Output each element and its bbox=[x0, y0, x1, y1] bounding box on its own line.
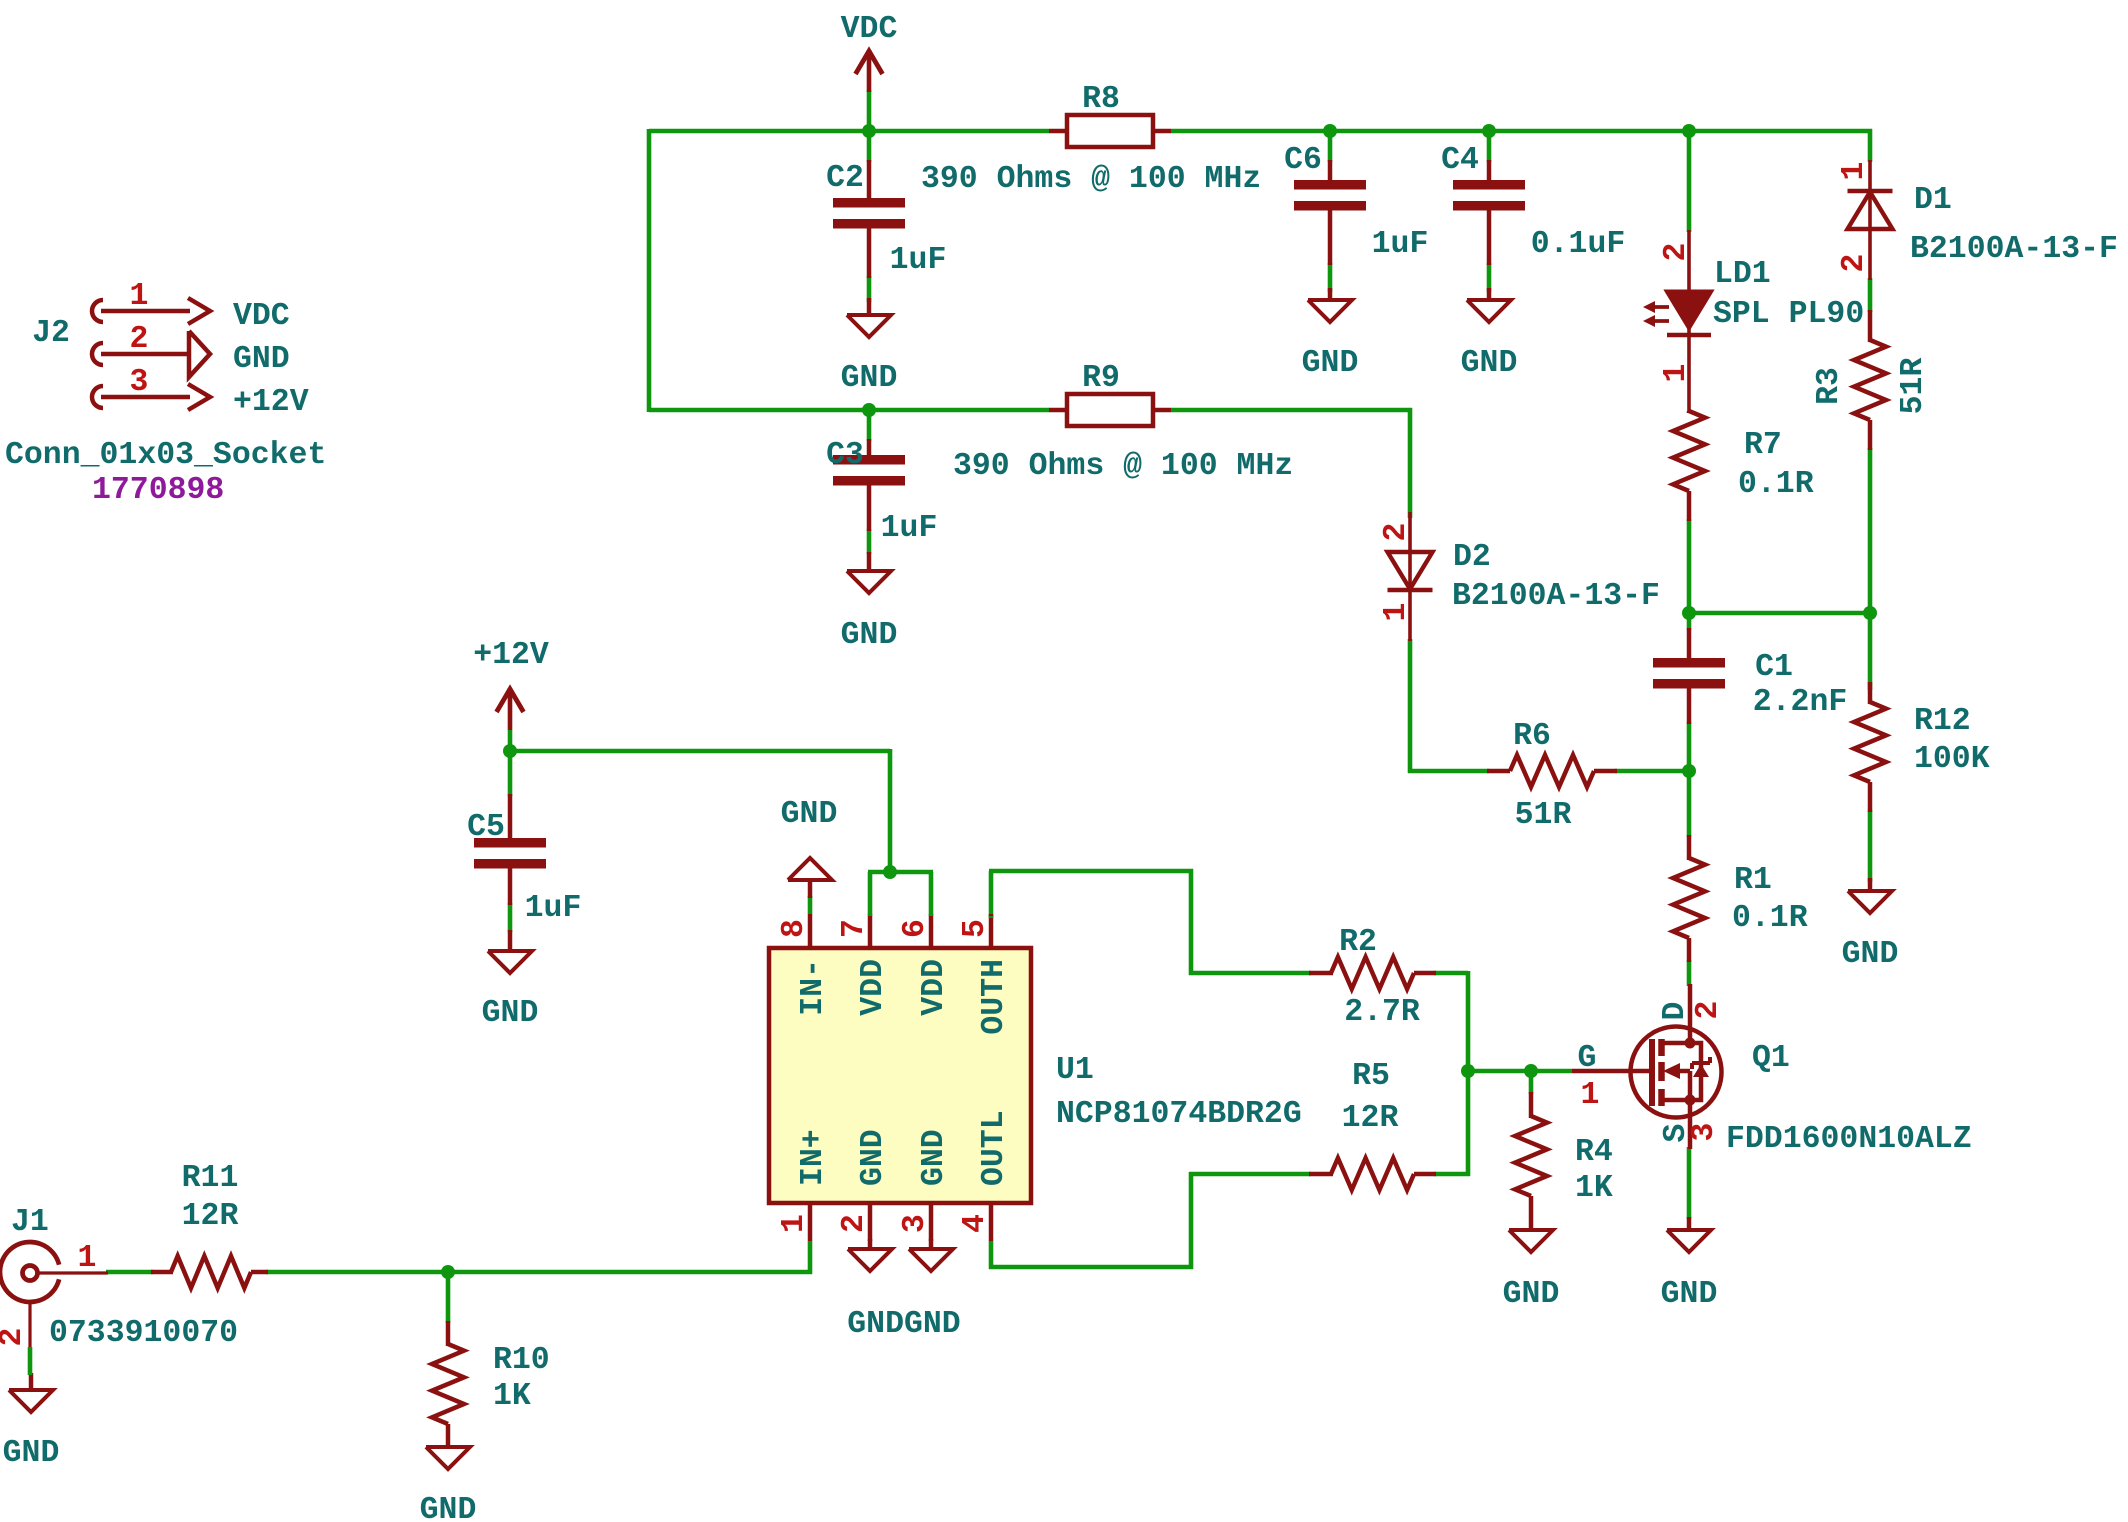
label D2 value bbox=[1452, 579, 1660, 614]
svg-text:VDC: VDC bbox=[233, 299, 290, 334]
connector J1 bbox=[0, 1242, 108, 1349]
wire D2 to corner bbox=[1408, 639, 1413, 773]
svg-text:R3: R3 bbox=[1812, 367, 1847, 405]
svg-text:GNDGND: GNDGND bbox=[847, 1307, 960, 1342]
junction C6 bbox=[1323, 124, 1337, 138]
svg-text:1770898: 1770898 bbox=[92, 473, 224, 508]
wire C3 top bbox=[867, 408, 872, 441]
ground under C2 bbox=[841, 298, 898, 396]
svg-text:51R: 51R bbox=[1515, 798, 1572, 833]
wire node to R12 bbox=[1868, 611, 1873, 690]
label GNDGND bbox=[847, 1307, 960, 1342]
svg-text:GND: GND bbox=[420, 1493, 477, 1522]
ground Q1 source bbox=[1661, 1217, 1718, 1312]
svg-text:3: 3 bbox=[130, 365, 149, 400]
label Q1 pin1 bbox=[1581, 1078, 1600, 1113]
label R7 bbox=[1744, 428, 1782, 463]
label J2 pin1 number bbox=[130, 279, 149, 314]
svg-text:D2: D2 bbox=[1453, 540, 1491, 575]
ground flag U1 pin8 bbox=[781, 797, 838, 898]
label U1 pin 8 number bbox=[777, 919, 812, 938]
ground under C3 bbox=[841, 552, 898, 653]
ground under C5 bbox=[482, 930, 539, 1031]
wire VDC rail to LD1 bbox=[1687, 129, 1692, 232]
svg-text:1uF: 1uF bbox=[525, 891, 582, 926]
svg-text:1: 1 bbox=[1581, 1078, 1600, 1113]
wire R9 rail left bbox=[649, 408, 1049, 413]
svg-text:IN+: IN+ bbox=[796, 1129, 831, 1186]
wire C2 top bbox=[867, 129, 872, 162]
svg-text:5: 5 bbox=[958, 919, 993, 938]
svg-text:GND: GND bbox=[1302, 346, 1359, 381]
svg-text:D1: D1 bbox=[1914, 183, 1952, 218]
label J1 pin1 number bbox=[78, 1241, 97, 1276]
svg-text:3: 3 bbox=[1687, 1123, 1722, 1142]
label R10 value bbox=[493, 1379, 531, 1414]
svg-text:GND: GND bbox=[841, 618, 898, 653]
svg-text:GND: GND bbox=[781, 797, 838, 832]
wire R1 to Q1 drain bbox=[1687, 960, 1692, 986]
ground under R12 bbox=[1842, 878, 1899, 972]
capacitor C5 bbox=[467, 794, 581, 926]
label U1 pin 6 number bbox=[898, 919, 933, 938]
resistor R2 bbox=[1309, 957, 1436, 989]
wire U1 pin8 stub bbox=[808, 896, 813, 914]
label R3 bbox=[1812, 367, 1847, 405]
wire +12V rail horizontal bbox=[508, 749, 890, 754]
label R12 value bbox=[1914, 742, 1990, 777]
wire VDC flag to rail bbox=[867, 90, 872, 133]
label U1 pin name GND bbox=[856, 1129, 891, 1186]
svg-text:1uF: 1uF bbox=[881, 511, 938, 546]
svg-text:+12V: +12V bbox=[233, 385, 309, 420]
svg-text:J1: J1 bbox=[11, 1205, 49, 1240]
svg-text:D: D bbox=[1658, 1002, 1693, 1021]
svg-text:U1: U1 bbox=[1056, 1053, 1094, 1088]
svg-text:G: G bbox=[1578, 1041, 1597, 1076]
resistor R5 bbox=[1309, 1158, 1436, 1190]
wire node to R10 bbox=[446, 1270, 451, 1323]
svg-text:C3: C3 bbox=[826, 438, 864, 473]
resistor R10 bbox=[432, 1321, 464, 1449]
label J2 number bbox=[92, 473, 224, 508]
IC U1 bbox=[769, 872, 1031, 1241]
label R2 bbox=[1339, 925, 1377, 960]
svg-text:51R: 51R bbox=[1896, 358, 1931, 415]
svg-text:LD1: LD1 bbox=[1714, 257, 1771, 292]
ground U1 pin2 bbox=[848, 1239, 892, 1271]
wire R12 to gnd bbox=[1868, 810, 1873, 882]
svg-text:Q1: Q1 bbox=[1752, 1041, 1790, 1076]
svg-text:C6: C6 bbox=[1284, 143, 1322, 178]
label U1 pin 1 number bbox=[777, 1214, 812, 1233]
resistor R12 bbox=[1854, 682, 1886, 812]
svg-text:GND: GND bbox=[1661, 1277, 1718, 1312]
junction +12V bbox=[503, 744, 517, 758]
label J2 pin3 number bbox=[130, 365, 149, 400]
label J2 bbox=[32, 316, 70, 351]
wire C1 bottom to node bbox=[1687, 722, 1692, 773]
wire R5 right lead wire bbox=[1434, 1172, 1470, 1177]
resistor R1 bbox=[1673, 835, 1705, 962]
svg-text:390 Ohms @ 100 MHz: 390 Ohms @ 100 MHz bbox=[921, 162, 1261, 197]
svg-text:FDD1600N10ALZ: FDD1600N10ALZ bbox=[1726, 1122, 1972, 1157]
wire R7 to node C1 bbox=[1687, 519, 1692, 615]
wire +12V rail down to U1 bbox=[888, 749, 893, 874]
capacitor C3 bbox=[826, 438, 937, 546]
wire node to R1 bbox=[1687, 769, 1692, 837]
label R4 value bbox=[1575, 1171, 1613, 1206]
svg-text:J2: J2 bbox=[32, 316, 70, 351]
resistor R6 bbox=[1487, 755, 1617, 787]
svg-text:GND: GND bbox=[841, 361, 898, 396]
resistor R4 bbox=[1515, 1092, 1547, 1232]
svg-text:0733910070: 0733910070 bbox=[49, 1316, 238, 1351]
wire R3 to node bbox=[1868, 448, 1873, 615]
wire C6 top bbox=[1328, 129, 1333, 162]
resistor R11 bbox=[151, 1256, 268, 1288]
svg-text:1uF: 1uF bbox=[890, 243, 947, 278]
wire node C1 horizontal bbox=[1687, 611, 1872, 616]
wire C5 to gnd bbox=[508, 903, 513, 932]
label J2 pin2 number bbox=[130, 322, 149, 357]
svg-text:R6: R6 bbox=[1513, 719, 1551, 754]
svg-text:C1: C1 bbox=[1755, 650, 1793, 685]
wire U1 pin5 up bbox=[989, 871, 994, 918]
junction C3 bbox=[862, 403, 876, 417]
svg-text:GND: GND bbox=[3, 1436, 60, 1471]
svg-text:2.7R: 2.7R bbox=[1344, 995, 1420, 1030]
label U1 pin name OUTL bbox=[977, 1110, 1012, 1186]
svg-text:4: 4 bbox=[958, 1214, 993, 1233]
svg-text:R1: R1 bbox=[1734, 863, 1772, 898]
label U1 pin 3 number bbox=[898, 1214, 933, 1233]
ground under C6 bbox=[1302, 288, 1359, 381]
svg-text:R12: R12 bbox=[1914, 704, 1971, 739]
junction R4-gate bbox=[1524, 1064, 1538, 1078]
wire OUTL horizontal bbox=[989, 1265, 1193, 1270]
svg-text:2: 2 bbox=[1837, 254, 1872, 273]
wire R2 to corner bbox=[1434, 971, 1468, 976]
label Q1 S bbox=[1659, 1124, 1694, 1143]
capacitor C1 bbox=[1653, 628, 1847, 724]
label Q1 value bbox=[1726, 1122, 1972, 1157]
ground J1 bbox=[3, 1373, 60, 1471]
svg-text:390 Ohms @ 100 MHz: 390 Ohms @ 100 MHz bbox=[953, 449, 1293, 484]
wire +12V to C5 bbox=[508, 749, 513, 796]
svg-text:1: 1 bbox=[777, 1214, 812, 1233]
svg-text:VDC: VDC bbox=[841, 12, 898, 47]
label J2 GND bbox=[233, 342, 290, 377]
svg-text:2.2nF: 2.2nF bbox=[1753, 685, 1848, 720]
svg-text:NCP81074BDR2G: NCP81074BDR2G bbox=[1056, 1097, 1302, 1132]
wire +12V flag to rail bbox=[508, 730, 513, 753]
svg-text:B2100A-13-F: B2100A-13-F bbox=[1910, 232, 2118, 267]
wire C4 bottom bbox=[1487, 263, 1492, 292]
svg-text:0.1R: 0.1R bbox=[1732, 901, 1808, 936]
svg-text:2: 2 bbox=[1659, 243, 1694, 262]
wire U1 pin4 down bbox=[989, 1241, 994, 1269]
connector J2 bbox=[92, 298, 210, 410]
svg-text:R5: R5 bbox=[1352, 1059, 1390, 1094]
label R6 bbox=[1513, 719, 1551, 754]
label U1 pin 2 number bbox=[837, 1214, 872, 1233]
svg-text:1: 1 bbox=[1379, 603, 1414, 622]
label U1 pin 5 number bbox=[958, 919, 993, 938]
laser diode LD1 bbox=[1643, 230, 1712, 413]
label R1 value bbox=[1732, 901, 1808, 936]
svg-text:2: 2 bbox=[1691, 1001, 1726, 1020]
junction R10 bbox=[441, 1265, 455, 1279]
svg-text:12R: 12R bbox=[182, 1199, 239, 1234]
diode D1 bbox=[1848, 160, 1893, 280]
label U1 pin name VDD bbox=[917, 959, 952, 1016]
svg-text:Conn_01x03_Socket: Conn_01x03_Socket bbox=[5, 438, 326, 473]
label J2 VDC bbox=[233, 299, 290, 334]
capacitor C2 bbox=[826, 160, 946, 278]
ground under C4 bbox=[1461, 288, 1518, 381]
svg-text:C2: C2 bbox=[826, 161, 864, 196]
label R1 bbox=[1734, 863, 1772, 898]
svg-text:1: 1 bbox=[1837, 162, 1872, 181]
label Q1 bbox=[1752, 1041, 1790, 1076]
wire R9 to D2 bbox=[1408, 408, 1413, 518]
label D1 pin1 bbox=[1837, 162, 1872, 181]
wire C1 top lead bbox=[1687, 611, 1692, 630]
wire top rail corner down to D1 bbox=[1868, 129, 1873, 162]
label Q1 pin2 bbox=[1691, 1001, 1726, 1020]
svg-text:IN-: IN- bbox=[796, 959, 831, 1016]
label U1 pin name OUTH bbox=[977, 959, 1012, 1035]
junction C1 left bbox=[1682, 606, 1696, 620]
diode D2 bbox=[1388, 512, 1433, 641]
svg-text:R9: R9 bbox=[1082, 361, 1120, 396]
label R12 bbox=[1914, 704, 1971, 739]
wire R4 top bbox=[1529, 1069, 1534, 1094]
wire left vertical branch bbox=[647, 129, 652, 412]
junction R6-R1 bbox=[1682, 764, 1696, 778]
wire to R2 bbox=[1189, 971, 1311, 976]
label U1 value bbox=[1056, 1097, 1302, 1132]
svg-text:VDD: VDD bbox=[917, 959, 952, 1016]
wire OUTH down bbox=[1189, 869, 1194, 975]
label D1 value bbox=[1910, 232, 2118, 267]
svg-text:0.1R: 0.1R bbox=[1738, 467, 1814, 502]
label R10 bbox=[493, 1343, 550, 1378]
wire OUTH horizontal bbox=[989, 869, 1193, 874]
svg-text:C4: C4 bbox=[1441, 143, 1479, 178]
wire U1 pin7 pin6 tie bbox=[868, 870, 933, 875]
svg-text:GND: GND bbox=[917, 1129, 952, 1186]
svg-text:GND: GND bbox=[233, 342, 290, 377]
svg-text:1: 1 bbox=[1659, 364, 1694, 383]
label R11 value bbox=[182, 1199, 239, 1234]
label D2 pin2 bbox=[1379, 523, 1414, 542]
svg-text:+12V: +12V bbox=[473, 638, 549, 673]
svg-text:R8: R8 bbox=[1082, 82, 1120, 117]
svg-text:0.1uF: 0.1uF bbox=[1531, 227, 1626, 262]
wire D1 to R3 bbox=[1868, 278, 1873, 312]
label J1 pin2 number bbox=[0, 1328, 30, 1347]
junction C1 right bbox=[1863, 606, 1877, 620]
svg-text:6: 6 bbox=[898, 919, 933, 938]
svg-text:1: 1 bbox=[78, 1241, 97, 1276]
label U1 pin name GND bbox=[917, 1129, 952, 1186]
junction U1 VDD bbox=[883, 865, 897, 879]
label J1 value bbox=[49, 1316, 238, 1351]
svg-text:GND: GND bbox=[856, 1129, 891, 1186]
svg-text:8: 8 bbox=[777, 919, 812, 938]
label J2 +12V bbox=[233, 385, 309, 420]
svg-text:12R: 12R bbox=[1342, 1101, 1399, 1136]
label LD1 value bbox=[1713, 297, 1864, 332]
wire C2 bottom bbox=[867, 276, 872, 302]
label R9 value bbox=[953, 449, 1293, 484]
junction C4 bbox=[1482, 124, 1496, 138]
wire R11 to U1 pin1 bbox=[266, 1270, 812, 1275]
svg-text:7: 7 bbox=[837, 919, 872, 938]
wire C4 top bbox=[1487, 129, 1492, 162]
resistor R9 bbox=[1049, 361, 1171, 426]
wire J1 pin2 bbox=[28, 1347, 33, 1375]
svg-text:OUTL: OUTL bbox=[977, 1110, 1012, 1186]
wire gate rail bbox=[1466, 1069, 1572, 1074]
label D2 pin1 bbox=[1379, 603, 1414, 622]
svg-text:R7: R7 bbox=[1744, 428, 1782, 463]
svg-text:1K: 1K bbox=[1575, 1171, 1613, 1206]
svg-text:OUTH: OUTH bbox=[977, 959, 1012, 1035]
svg-text:1K: 1K bbox=[493, 1379, 531, 1414]
wire Q1 source to gnd bbox=[1687, 1147, 1692, 1219]
label Q1 G bbox=[1578, 1041, 1597, 1076]
label U1 pin name VDD bbox=[856, 959, 891, 1016]
junction R2-R5 bbox=[1461, 1064, 1475, 1078]
label R3 value bbox=[1896, 358, 1931, 415]
label LD1 pin1 bbox=[1659, 364, 1694, 383]
label U1 bbox=[1056, 1053, 1094, 1088]
resistor R8 bbox=[1049, 82, 1171, 147]
wire J1 to R11 bbox=[106, 1270, 153, 1275]
label U1 pin 4 number bbox=[958, 1214, 993, 1233]
svg-text:VDD: VDD bbox=[856, 959, 891, 1016]
svg-text:1: 1 bbox=[130, 279, 149, 314]
svg-text:2: 2 bbox=[1379, 523, 1414, 542]
label U1 pin name IN- bbox=[796, 959, 831, 1016]
label R7 value bbox=[1738, 467, 1814, 502]
svg-text:1uF: 1uF bbox=[1372, 227, 1429, 262]
resistor R3 bbox=[1854, 310, 1886, 450]
label R4 bbox=[1575, 1135, 1613, 1170]
svg-text:2: 2 bbox=[0, 1328, 30, 1347]
svg-text:3: 3 bbox=[898, 1214, 933, 1233]
wire OUTL vertical bbox=[1189, 1172, 1194, 1269]
svg-text:GND: GND bbox=[1503, 1277, 1560, 1312]
label D2 bbox=[1453, 540, 1491, 575]
label Q1 D bbox=[1658, 1002, 1693, 1021]
capacitor C6 bbox=[1284, 143, 1428, 265]
power flag VDC bbox=[841, 12, 898, 92]
label Q1 pin3 bbox=[1687, 1123, 1722, 1142]
ground under R4 bbox=[1503, 1230, 1560, 1312]
wire corner to R6 bbox=[1408, 769, 1489, 774]
svg-text:R2: R2 bbox=[1339, 925, 1377, 960]
wire R6 to node bbox=[1615, 769, 1691, 774]
svg-text:2: 2 bbox=[130, 322, 149, 357]
label R11 bbox=[182, 1161, 239, 1196]
wire C6 bottom bbox=[1328, 263, 1333, 292]
wire C3 bottom bbox=[867, 529, 872, 554]
capacitor C4 bbox=[1441, 143, 1625, 265]
label R5 bbox=[1352, 1059, 1390, 1094]
ground under R10 bbox=[420, 1447, 477, 1522]
wire top VDC rail left segment bbox=[649, 129, 1049, 134]
junction VDC-C2 bbox=[862, 124, 876, 138]
wire R9 rail right bbox=[1171, 408, 1412, 413]
label J1 bbox=[11, 1205, 49, 1240]
svg-text:B2100A-13-F: B2100A-13-F bbox=[1452, 579, 1660, 614]
label U1 pin 7 number bbox=[837, 919, 872, 938]
label LD1 pin2 bbox=[1659, 243, 1694, 262]
label R8 value bbox=[921, 162, 1261, 197]
wire R5 left wire bbox=[1189, 1172, 1311, 1177]
label LD1 bbox=[1714, 257, 1771, 292]
svg-text:GND: GND bbox=[482, 996, 539, 1031]
label D1 pin2 bbox=[1837, 254, 1872, 273]
label D1 bbox=[1914, 183, 1952, 218]
wire U1 pin1 down bbox=[808, 1241, 813, 1274]
svg-text:2: 2 bbox=[837, 1214, 872, 1233]
svg-text:GND: GND bbox=[1842, 937, 1899, 972]
svg-text:100K: 100K bbox=[1914, 742, 1990, 777]
svg-text:C5: C5 bbox=[467, 810, 505, 845]
label R6 value bbox=[1515, 798, 1572, 833]
svg-text:SPL PL90: SPL PL90 bbox=[1713, 297, 1864, 332]
wire top VDC rail right segment bbox=[1171, 129, 1872, 134]
svg-text:R4: R4 bbox=[1575, 1135, 1613, 1170]
label U1 pin name IN+ bbox=[796, 1129, 831, 1186]
power flag +12V bbox=[473, 638, 549, 730]
label J2 name bbox=[5, 438, 326, 473]
label R2 value bbox=[1344, 995, 1420, 1030]
svg-text:GND: GND bbox=[1461, 346, 1518, 381]
ground U1 pin3 bbox=[909, 1239, 953, 1271]
label R5 value bbox=[1342, 1101, 1399, 1136]
svg-text:R11: R11 bbox=[182, 1161, 239, 1196]
svg-text:R10: R10 bbox=[493, 1343, 550, 1378]
wire R2-R5 vertical bbox=[1466, 971, 1471, 1176]
transistor Q1 bbox=[1572, 984, 1722, 1149]
resistor R7 bbox=[1673, 411, 1705, 521]
junction LD1 branch bbox=[1682, 124, 1696, 138]
